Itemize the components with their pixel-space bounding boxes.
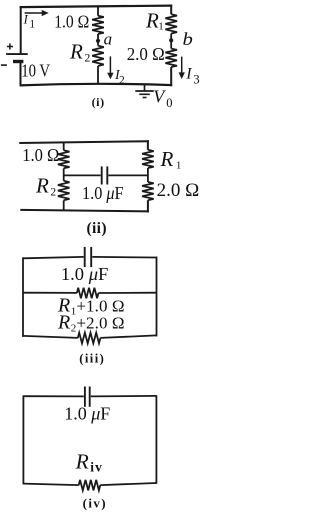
svg-text:R1: R1 — [145, 8, 164, 32]
current arrow I1 — [25, 12, 45, 14]
wire: middle branch between resistors — [97, 34, 99, 46]
wire: circuit (i) left rail upper — [20, 6, 22, 54]
wire: (iii) bottom rail right part — [100, 335, 156, 338]
wire: (iv) top rail left of capacitor — [23, 395, 83, 397]
battery + sign — [7, 46, 13, 48]
svg-text:(ii): (ii) — [87, 220, 107, 237]
wire: (iv) top rail right of capacitor — [91, 395, 157, 398]
wire: (iv) left rail — [22, 395, 24, 484]
svg-text:(iv): (iv) — [83, 496, 106, 511]
resistor R1 (i) — [165, 14, 177, 33]
wire: circuit (i) top rail — [20, 6, 173, 8]
svg-text:R2: R2 — [35, 174, 56, 199]
svg-text:1.0 μF: 1.0 μF — [82, 184, 124, 204]
svg-text:I1: I1 — [23, 13, 36, 31]
resistor 2.0 ohm (i) — [165, 49, 177, 67]
wire: right branch mid stem — [170, 34, 172, 49]
wire: (ii) right branch bottom stem — [147, 200, 149, 212]
wire: (ii) middle wire right of capacitor — [108, 174, 147, 176]
wire: circuit (i) left rail lower — [20, 62, 22, 87]
wire: (iii) middle rail right part — [98, 292, 156, 294]
svg-text:Riv: Riv — [75, 449, 104, 474]
wire: (ii) right branch mid stem — [147, 168, 149, 182]
current arrow I2 — [109, 56, 111, 75]
svg-text:I3: I3 — [185, 66, 199, 87]
node a dot — [96, 39, 100, 43]
resistor R2 (i) — [92, 46, 104, 66]
capacitor 1.0 uF (iii) right plate — [90, 247, 92, 267]
svg-text:R1: R1 — [160, 147, 182, 171]
wire: (iv) bottom rail left part — [23, 484, 78, 486]
capacitor 1.0 uF (iv) right plate — [89, 387, 91, 407]
svg-text:2.0 Ω: 2.0 Ω — [157, 180, 200, 201]
resistor R1 (ii) — [142, 150, 154, 168]
svg-text:10 V: 10 V — [21, 60, 50, 81]
wire: middle branch top stem — [97, 6, 99, 16]
wire: (iv) bottom rail right part — [100, 483, 156, 485]
ground symbol — [144, 84, 146, 91]
wire: right branch bottom stem — [170, 67, 172, 86]
current arrow I3 — [181, 57, 183, 75]
wire: circuit (ii) top rail — [19, 141, 149, 143]
svg-text:1.0 μF: 1.0 μF — [64, 404, 110, 424]
wire: (iii) left rail — [22, 257, 24, 337]
svg-text:R2: R2 — [69, 40, 91, 65]
node b dot — [169, 38, 173, 42]
svg-text:V0: V0 — [153, 87, 172, 110]
wire: circuit (i) bottom rail (slightly bowed like the scan) — [20, 84, 173, 86]
wire: (ii) left branch top stem — [63, 142, 65, 150]
resistor 1.0 ohm (i) — [92, 16, 104, 34]
svg-text:2.0 Ω: 2.0 Ω — [127, 45, 165, 64]
wire: (ii) left branch mid stem — [63, 168, 65, 181]
svg-text:1.0 Ω: 1.0 Ω — [22, 146, 59, 166]
resistor R1+1.0 ohm zigzag — [77, 288, 99, 299]
resistor R2+2.0 ohm zigzag — [78, 333, 101, 344]
wire: (ii) middle wire left of capacitor — [64, 174, 101, 176]
svg-text:b: b — [183, 31, 193, 50]
capacitor 1.0 uF (iii) left plate — [84, 247, 86, 267]
wire: (ii) right branch top stem — [147, 140, 149, 150]
capacitor 1.0 uF (iv) left plate — [84, 387, 86, 407]
resistor 1.0 ohm (ii) — [58, 150, 70, 168]
wire: circuit (ii) bottom rail — [20, 210, 149, 212]
wire: (iv) right rail — [155, 395, 157, 484]
battery 10V - plate — [13, 60, 23, 63]
wire: (iii) bottom rail left part — [23, 336, 78, 338]
resistor 2.0 ohm (ii) — [142, 182, 154, 200]
svg-text:a: a — [104, 29, 113, 48]
svg-text:(iii): (iii) — [79, 351, 104, 365]
svg-text:1.0 Ω: 1.0 Ω — [54, 11, 89, 31]
capacitor 1.0 uF (ii) left plate — [101, 166, 103, 184]
wire: (iii) middle rail left part — [23, 292, 77, 294]
capacitor 1.0 uF (ii) right plate — [106, 166, 108, 184]
battery - sign — [1, 64, 7, 66]
wire: right branch top stem — [170, 5, 172, 15]
wire: (iii) top rail right of capacitor — [92, 256, 156, 259]
wire: (iii) top rail left of capacitor — [23, 257, 84, 258]
svg-text:1.0 μF: 1.0 μF — [61, 264, 108, 283]
wire: (ii) left branch bottom stem — [63, 200, 65, 210]
resistor R_iv zigzag — [79, 480, 101, 491]
wire: middle branch bottom stem — [97, 66, 99, 84]
svg-text:(i): (i) — [92, 95, 105, 109]
resistor R2 (ii) — [58, 181, 70, 201]
battery 10V + plate — [6, 53, 28, 55]
wire: (iii) right rail — [156, 257, 158, 337]
